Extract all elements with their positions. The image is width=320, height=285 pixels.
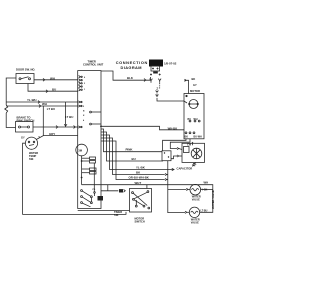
svg-text:WH: WH xyxy=(50,76,55,80)
svg-text:4: 4 xyxy=(83,119,85,122)
wire motor bottom to pump connector 1 xyxy=(163,139,186,151)
wire brake switch to timer xyxy=(33,126,78,129)
water valve feeder vertical xyxy=(168,161,185,213)
timer pins right inner xyxy=(90,111,101,125)
svg-text:P5: P5 xyxy=(93,189,96,191)
cold valve solenoid L2 xyxy=(185,207,200,217)
pump motor winding box xyxy=(184,147,190,153)
lid switch S1 label xyxy=(16,68,36,72)
svg-text:WH: WH xyxy=(194,118,198,121)
label Y-BK xyxy=(202,188,208,191)
label GY xyxy=(21,136,25,140)
svg-text:B: B xyxy=(83,111,85,113)
svg-text:WH: WH xyxy=(204,180,209,184)
wire YL/WH left harness xyxy=(6,78,78,136)
hot valve right lead xyxy=(201,188,213,190)
label CAPACITOR xyxy=(177,167,193,171)
connector chevron on black wire xyxy=(144,79,146,82)
cold valve label xyxy=(191,218,200,224)
hot valve solenoid L1 xyxy=(186,184,200,195)
timer control unit U1 label xyxy=(83,59,104,66)
label GRY xyxy=(49,132,55,136)
svg-text:GY: GY xyxy=(21,136,25,140)
wire BK with riser xyxy=(101,141,165,180)
pump motor impeller xyxy=(191,148,202,159)
svg-text:MOTOR: MOTOR xyxy=(190,89,200,93)
wire timer bottom to start switch xyxy=(78,210,130,212)
junction dots xyxy=(81,125,102,178)
svg-text:BLK: BLK xyxy=(127,76,134,80)
svg-text:YL-BK: YL-BK xyxy=(136,166,146,170)
svg-text:BU: BU xyxy=(132,157,136,161)
wire WH lid switch to timer xyxy=(34,78,78,81)
brake switch S2 label xyxy=(17,115,35,122)
wire temp switch long bottom run xyxy=(23,143,126,214)
lid switch S1 box xyxy=(16,74,34,84)
svg-text:VALVE: VALVE xyxy=(192,199,200,202)
svg-text:BU: BU xyxy=(188,118,192,121)
label GY small xyxy=(193,83,197,87)
drive motor internal pins lower xyxy=(185,132,203,139)
label PINK xyxy=(126,148,134,152)
label WH xyxy=(50,76,55,80)
power cord lead arrows xyxy=(150,79,162,83)
strain relief squiggle xyxy=(5,105,8,113)
chevron joins on feeder xyxy=(165,173,168,180)
svg-text:BU: BU xyxy=(52,88,56,92)
svg-text:LT BU: LT BU xyxy=(65,115,73,119)
connector dashed column xyxy=(157,83,160,99)
part number block (black) xyxy=(149,60,163,67)
label BK xyxy=(136,171,141,175)
wire BK to drive motor top xyxy=(185,79,189,93)
wire feeder to hot valve xyxy=(168,188,187,190)
svg-text:BU-WH: BU-WH xyxy=(194,136,203,139)
motor start switch contacts X xyxy=(132,191,150,209)
wire timer to start switch xyxy=(101,190,118,192)
connector chevron into start switch xyxy=(119,189,125,192)
svg-text:CAPACITOR: CAPACITOR xyxy=(177,167,193,171)
label YL/BK xyxy=(136,166,146,170)
wire WHT branch drop xyxy=(107,185,109,191)
motor protector M2 circle xyxy=(76,144,88,156)
pump capacitor stub xyxy=(192,162,196,166)
svg-text:BK: BK xyxy=(192,77,196,81)
svg-text:WHT: WHT xyxy=(135,181,142,185)
timer internal cam switches xyxy=(81,189,96,207)
wire WH/BK timer to drive motor xyxy=(101,126,184,130)
svg-text:Y-BK: Y-BK xyxy=(202,188,208,191)
hot valve label xyxy=(192,196,201,202)
drive motor M1 label xyxy=(190,89,200,93)
wire PINK with riser xyxy=(101,129,162,152)
pump inlet connector block xyxy=(162,151,171,161)
timer inner pads xyxy=(90,157,97,174)
svg-text:SW.: SW. xyxy=(29,157,34,161)
label OR-BU-WH xyxy=(129,176,150,180)
label WH xyxy=(42,102,47,106)
svg-text:1/8-07-02: 1/8-07-02 xyxy=(164,61,177,65)
svg-text:LT BU: LT BU xyxy=(47,107,55,111)
part number text 1/8/07/02 xyxy=(164,61,177,65)
label WH/BK xyxy=(168,126,178,130)
wire WHT long xyxy=(82,185,213,213)
brake switch S2 box xyxy=(16,122,34,133)
svg-text:2: 2 xyxy=(83,106,85,108)
timer pins left middle group xyxy=(78,101,85,128)
label LT BU xyxy=(47,107,55,111)
power cord connector P1 xyxy=(151,66,160,74)
svg-text:CONTROL UNIT: CONTROL UNIT xyxy=(83,62,104,66)
protector stubs to pads xyxy=(82,158,90,173)
svg-text:3: 3 xyxy=(84,83,86,85)
wire GRY temp switch right xyxy=(36,136,77,140)
water temp switch S3 circle xyxy=(25,137,37,149)
svg-text:YL-WH: YL-WH xyxy=(27,98,36,102)
power cord lead terminals xyxy=(150,74,161,76)
label WH xyxy=(204,180,209,184)
svg-text:BK: BK xyxy=(136,171,141,175)
pump motor rotation label CW xyxy=(187,144,192,147)
svg-text:6: 6 xyxy=(84,77,86,79)
title CONNECTION DIAGRAM xyxy=(116,60,148,70)
timer bottom label xyxy=(114,210,122,217)
wire WHT drop to start switch xyxy=(146,185,148,189)
svg-text:K: K xyxy=(83,115,85,117)
wire connector to drive motor xyxy=(157,99,187,103)
svg-text:SW.: SW. xyxy=(114,213,119,217)
svg-text:BK: BK xyxy=(185,136,189,139)
label Y xyxy=(38,135,40,139)
water temp switch S3 label xyxy=(29,151,38,161)
brake switch S2 contacts xyxy=(19,126,30,128)
drive motor protector circle xyxy=(186,95,199,108)
label BK xyxy=(192,77,196,81)
label BU xyxy=(132,157,136,161)
svg-text:VALVE: VALVE xyxy=(191,221,199,224)
svg-text:DOOR SW. NO.: DOOR SW. NO. xyxy=(16,68,36,72)
motor start switch label xyxy=(135,217,145,224)
svg-text:PINK: PINK xyxy=(126,148,134,152)
label YL WH xyxy=(27,98,36,102)
label BU xyxy=(52,88,56,92)
svg-text:DIAGRAM: DIAGRAM xyxy=(121,65,142,70)
label LT BU near timer xyxy=(65,115,73,119)
capacitor wire arrowhead xyxy=(172,168,174,170)
svg-text:3M: 3M xyxy=(78,149,82,153)
wire BLACK timer to power cord xyxy=(101,71,151,80)
label BLK xyxy=(127,76,134,80)
wire BU lid switch lower xyxy=(28,84,78,93)
label WHT xyxy=(135,181,142,185)
wire motor bottom to pump connector 2 xyxy=(170,139,190,149)
svg-text:GRY: GRY xyxy=(49,132,55,136)
drive motor M1 box xyxy=(184,94,204,139)
motor start switch S4 box xyxy=(130,189,152,213)
connector blob P4 xyxy=(98,196,104,201)
lid switch S1 contacts xyxy=(19,77,31,80)
svg-text:LT-BU: LT-BU xyxy=(201,209,208,212)
svg-text:OR-BU-WH-BK: OR-BU-WH-BK xyxy=(129,176,150,180)
svg-text:WH-BK: WH-BK xyxy=(168,126,178,130)
svg-text:WH: WH xyxy=(42,102,47,106)
svg-text:GY: GY xyxy=(193,83,197,87)
svg-text:WATER VALVE: WATER VALVE xyxy=(211,190,215,209)
label WATER VALVE vertical xyxy=(211,190,215,209)
pump leads with chevrons xyxy=(171,155,182,159)
label LT-BU xyxy=(201,209,208,212)
svg-text:1: 1 xyxy=(84,89,86,91)
svg-text:SWITCH: SWITCH xyxy=(135,220,145,224)
wire BU with riser xyxy=(101,132,163,161)
wire YL to capacitor with riser xyxy=(101,135,174,170)
timer control unit U1 box xyxy=(78,71,101,209)
wire OR with riser xyxy=(101,138,165,175)
timer pins left top group xyxy=(79,76,86,92)
pump motor M3 box xyxy=(182,143,205,162)
chevrons on dashed column xyxy=(156,91,159,97)
timer internal bus vertical xyxy=(93,163,95,192)
protector drop wire xyxy=(81,156,83,185)
drive motor internal pins upper xyxy=(188,118,201,122)
